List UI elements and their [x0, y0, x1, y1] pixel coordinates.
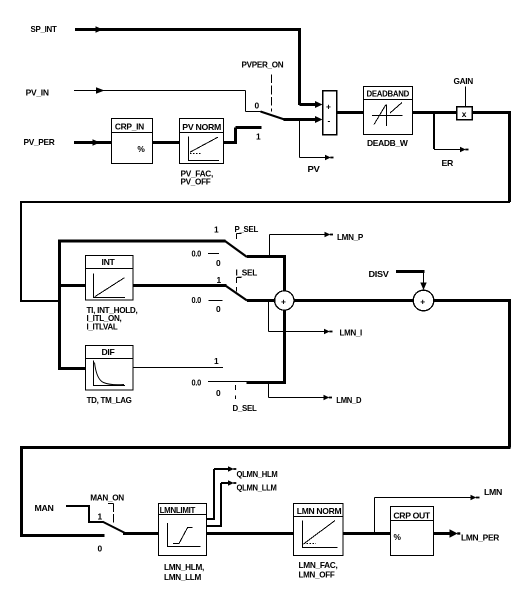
- svg-text:LMNLIMIT: LMNLIMIT: [160, 505, 197, 515]
- svg-text:I_SEL: I_SEL: [236, 268, 258, 278]
- svg-text:LMN_HLM,: LMN_HLM,: [164, 562, 204, 572]
- svg-text:INT: INT: [102, 257, 116, 267]
- svg-text:+: +: [326, 102, 331, 112]
- wire DIF output to D_SEL 1 terminal: [133, 367, 223, 369]
- wire LMN_I takeoff: [269, 302, 333, 334]
- svg-text:MAN_ON: MAN_ON: [90, 493, 124, 503]
- svg-text:DEADBAND: DEADBAND: [367, 89, 410, 99]
- svg-text:+: +: [420, 296, 425, 306]
- svg-text:%: %: [137, 144, 145, 154]
- svg-text:PVPER_ON: PVPER_ON: [242, 59, 284, 69]
- svg-text:I_ITLVAL: I_ITLVAL: [87, 322, 118, 332]
- svg-text:0.0: 0.0: [192, 378, 202, 388]
- svg-text:0: 0: [98, 544, 103, 554]
- switch blade PVPER_ON: [261, 112, 285, 120]
- wire QLMN_HLM output: [207, 466, 237, 520]
- svg-text:DEADB_W: DEADB_W: [367, 138, 408, 148]
- svg-text:QLMN_LLM: QLMN_LLM: [237, 482, 277, 492]
- block CRP_IN: [112, 119, 153, 164]
- svg-text:PV_PER: PV_PER: [24, 137, 55, 147]
- svg-text:+: +: [281, 296, 286, 306]
- block PV_NORM: [180, 119, 224, 164]
- wire ER loop frame to PID branches: [20, 201, 510, 302]
- multiplier X (gain): [457, 107, 473, 120]
- wire GAIN lead: [465, 87, 467, 107]
- summer PID+DISV: [413, 290, 434, 311]
- svg-text:1: 1: [217, 275, 222, 285]
- switch blade I_SEL: [226, 286, 247, 301]
- svg-text:DISV: DISV: [369, 269, 390, 279]
- svg-text:PV_OFF: PV_OFF: [181, 177, 211, 187]
- svg-text:x: x: [462, 109, 467, 119]
- wire 0.0 stub (P_SEL): [208, 253, 219, 255]
- svg-text:LMN_PER: LMN_PER: [461, 533, 499, 543]
- wire ER takeoff: [434, 114, 469, 152]
- svg-text:0: 0: [216, 304, 221, 314]
- wire DISV into summer2: [396, 272, 427, 291]
- svg-text:1: 1: [214, 225, 219, 235]
- wire P branch: [58, 240, 226, 243]
- block LMN_LIMIT: [159, 504, 207, 556]
- svg-text:PV: PV: [308, 164, 321, 174]
- block LMN_NORM: [294, 504, 344, 556]
- wire I_SEL output to summer: [247, 299, 276, 302]
- svg-text:0: 0: [216, 258, 221, 268]
- wire D_SEL output to summer bottom: [247, 310, 287, 384]
- wire summer1 to summer2: [294, 299, 414, 302]
- svg-text:1: 1: [98, 512, 103, 522]
- summer P+I+D: [275, 291, 294, 310]
- wire summer2 output down right side: [434, 299, 511, 448]
- switch blade P_SEL: [225, 241, 247, 257]
- block DEADBAND: [364, 87, 413, 135]
- wire LMN_PER output: [434, 529, 461, 538]
- wire LMN_NORM to CRP_OUT: [343, 532, 391, 535]
- wire SP_INT to summer + input: [75, 26, 323, 108]
- svg-text:CRP OUT: CRP OUT: [393, 510, 431, 520]
- wire PV takeoff: [300, 121, 334, 160]
- node MAN_ON label and control: [90, 493, 124, 523]
- svg-text:LMN NORM: LMN NORM: [297, 506, 342, 516]
- svg-text:0: 0: [255, 101, 260, 111]
- wire LMN_D takeoff: [269, 384, 333, 400]
- svg-text:PV NORM: PV NORM: [182, 122, 221, 132]
- svg-text:LMN_P: LMN_P: [337, 232, 364, 242]
- wire QLMN_LLM output: [207, 480, 237, 527]
- wire switch to LMN_LIMIT: [123, 532, 159, 535]
- svg-text:LMN_FAC,: LMN_FAC,: [299, 560, 338, 570]
- svg-text:1: 1: [214, 356, 219, 366]
- svg-text:QLMN_HLM: QLMN_HLM: [237, 469, 278, 479]
- wire summer to DEADBAND: [337, 111, 364, 114]
- svg-text:LMN_I: LMN_I: [340, 327, 363, 337]
- svg-text:TD, TM_LAG: TD, TM_LAG: [87, 395, 132, 405]
- wire PV_PER to CRP_IN: [74, 139, 112, 145]
- wire PVPER_ON dashed control: [271, 74, 273, 111]
- node I_SEL label and control: [236, 268, 258, 292]
- svg-text:LMN: LMN: [484, 487, 502, 497]
- svg-text:%: %: [394, 532, 402, 542]
- svg-text:CRP_IN: CRP_IN: [115, 122, 144, 132]
- svg-text:PV_IN: PV_IN: [26, 87, 49, 97]
- wire MAN to switch 1 terminal: [66, 505, 103, 522]
- svg-text:-: -: [328, 116, 331, 126]
- svg-text:LMN_LLM: LMN_LLM: [164, 572, 201, 582]
- wire INT output to I_SEL: [133, 284, 227, 287]
- wire DEADBAND to gain multiplier: [413, 111, 457, 114]
- svg-text:ER: ER: [442, 158, 454, 168]
- svg-text:MAN: MAN: [35, 503, 54, 513]
- wire LMN_LIMIT to LMN_NORM: [207, 532, 294, 535]
- wire bottom frame (summer2 output to manual switch): [20, 446, 511, 537]
- svg-text:D_SEL: D_SEL: [233, 403, 257, 413]
- wire D branch into DIF: [58, 367, 86, 370]
- block DIF (differentiator): [86, 346, 134, 391]
- svg-text:LMN_OFF: LMN_OFF: [299, 570, 335, 580]
- wire CRP_IN to PV_NORM: [153, 141, 180, 144]
- svg-text:LMN_D: LMN_D: [336, 395, 361, 405]
- svg-text:0.0: 0.0: [192, 295, 202, 305]
- svg-text:GAIN: GAIN: [454, 76, 474, 86]
- block INT (integrator): [86, 256, 134, 301]
- svg-text:1: 1: [256, 132, 261, 142]
- wire P_SEL output to summer top: [247, 257, 286, 292]
- node P_SEL label and control: [235, 224, 259, 240]
- wire gain output down right side: [472, 111, 510, 202]
- svg-text:DIF: DIF: [102, 347, 115, 357]
- svg-text:0.0: 0.0: [192, 249, 202, 259]
- wire 0.0 stub (I_SEL): [209, 300, 223, 302]
- wire LMN takeoff: [375, 495, 480, 533]
- block CRP_OUT: [391, 507, 434, 556]
- wire 0.0 through path (D_SEL closed to 0): [208, 381, 247, 383]
- svg-text:0: 0: [216, 388, 221, 398]
- summing block SP-PV: [323, 91, 337, 135]
- svg-text:P_SEL: P_SEL: [235, 224, 259, 234]
- svg-text:SP_INT: SP_INT: [31, 24, 58, 34]
- wire switch to summer - input: [284, 116, 323, 123]
- wire PV_IN to switch 0 terminal: [74, 87, 261, 111]
- wire PV_NORM to switch 1 terminal: [224, 128, 262, 143]
- wire PID distribution vertical: [58, 240, 61, 370]
- switch blade MAN_ON: [103, 522, 127, 534]
- wire I branch into INT: [58, 284, 86, 287]
- node D_SEL label and control: [233, 385, 257, 413]
- wire LMN_P takeoff: [270, 232, 334, 256]
